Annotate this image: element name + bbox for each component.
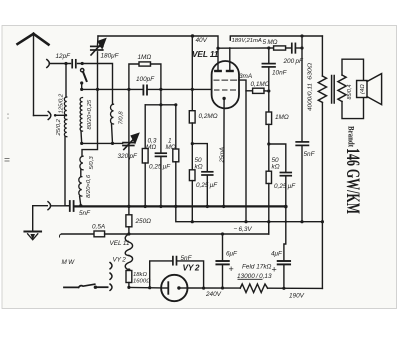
wire tap to coil L1 [55,114,66,116]
coil L1 125/0.2 + 25/0.2 [64,97,66,137]
svg-text:8/20×0,6: 8/20×0,6 [86,174,92,198]
svg-text:25/0,2: 25/0,2 [56,118,62,136]
wire line y=143.4 [82,142,123,144]
svg-text:5nF: 5nF [181,255,193,262]
svg-text:VY 2: VY 2 [113,256,127,263]
svg-text:M W: M W [62,259,76,266]
svg-text:5 MΩ: 5 MΩ [263,39,278,46]
node L3 bottom [111,142,114,145]
svg-text:40V: 40V [196,37,208,44]
capacitor 0.25uF detector [156,153,167,156]
svg-text:0,25 μF: 0,25 μF [274,183,296,190]
ground [25,206,48,240]
svg-text:146 GW/KM: 146 GW/KM [342,148,363,214]
svg-text:630Ω: 630Ω [307,62,313,80]
heater VY2 wavy [125,256,132,271]
speaker voice coil box [357,81,367,98]
svg-text:VEL 11: VEL 11 [110,240,130,247]
svg-text:4μF: 4μF [271,250,283,257]
svg-text:0,25 μF: 0,25 μF [149,164,171,171]
speaker cone [367,74,382,105]
svg-text:200 pF: 200 pF [283,58,304,65]
svg-text:80/20×0,25: 80/20×0,25 [87,99,93,129]
resistor 0.1M [246,90,253,92]
svg-text:kΩ: kΩ [195,164,203,171]
connector plug antenna tap [48,112,51,120]
svg-text:12pF: 12pF [56,53,72,60]
svg-text:85/0,4: 85/0,4 [347,84,353,100]
svg-text:0,5A: 0,5A [92,223,105,230]
resistor 250 ohm [128,206,130,214]
svg-text:240V: 240V [205,291,222,298]
resistor 1M grid bracket [129,62,161,90]
coil L2 80/20x0.25 [80,98,82,132]
wire x=302 branch 5nF [301,36,303,141]
wire cathode rail to VY2 [129,286,161,289]
svg-text:6μF: 6μF [226,250,238,257]
transformer primary winding [318,76,326,102]
wire -6.3V line [176,206,323,221]
svg-text:VEL 11: VEL 11 [192,49,219,59]
capacitor 0.25uF mid [202,172,213,175]
capacitor 4uF electrolytic [284,207,286,261]
transformer secondary winding [338,75,346,102]
svg-text:0,1MΩ: 0,1MΩ [251,81,270,88]
resistor 18k/1600 [126,271,132,283]
transformer core [331,76,333,104]
wire input line y=63.5 [49,63,70,65]
anode plates [215,70,220,72]
svg-text:Feld 17kΩ: Feld 17kΩ [242,263,272,270]
svg-text:190V: 190V [289,292,305,299]
speck marks left margin [5,114,10,162]
capacitor 100pF [143,85,147,94]
wire heater rail [62,233,95,235]
svg-text:5nF: 5nF [304,151,316,158]
svg-text:7/0,8: 7/0,8 [119,111,125,125]
switch band MW [80,69,87,90]
svg-text:18kΩ: 18kΩ [133,272,147,278]
svg-text:kΩ: kΩ [272,164,280,171]
wire 0.25uF branch right [269,144,286,172]
antenna [18,34,49,116]
svg-text:100pF: 100pF [136,76,155,83]
capacitor 5nF right [296,142,308,146]
wire 240V rail [187,287,240,289]
capacitor 5nF chassis [70,201,74,211]
wire L2 bottom to 143 line [80,131,83,143]
wire antenna to tap plug [34,115,48,117]
wire screen g2 right + 3mA [239,80,246,222]
wire output transformer primary feed x=322.4 [321,36,323,76]
svg-text:10nF: 10nF [272,70,288,77]
variable capacitor 180pF [91,46,103,50]
grid g2 dashes [214,79,237,81]
wire cap to switch and corner to L3 [78,64,113,105]
svg-text:MΩ: MΩ [166,144,176,151]
svg-text:MΩ: MΩ [146,144,156,151]
capacitor 200pF [292,43,296,52]
coil L4 5/0.3 [80,156,83,170]
capacitor 6uF electrolytic [222,234,224,261]
variable capacitor 320pF [123,143,134,146]
switch mains [64,286,79,288]
node grid wire left end [80,88,83,91]
svg-text:4000/0,11: 4000/0,11 [307,83,313,111]
wire y=104.8 link [145,104,176,106]
node L1 top [64,62,67,65]
svg-text:3mA: 3mA [239,73,252,80]
wire anode line y=48 [218,47,269,49]
svg-text:Brandt: Brandt [346,126,355,147]
wire 320pF branch x=128.9 [128,89,130,142]
svg-text:(4Ω: (4Ω [360,84,366,94]
svg-text:0,25 μF: 0,25 μF [196,182,218,189]
heater taps plugs [110,263,112,269]
cathode [222,97,225,100]
capacitor 12pF [72,60,76,68]
tube VEL11 [212,48,239,207]
wire screen feed x=192 [191,36,193,111]
capacitor 0.25uF right [280,173,291,176]
rectifier VY2 [161,275,187,301]
wire 0.25uF branch mid [192,144,207,172]
capacitor 5nF VY2 bridge [150,261,172,288]
svg-text:180μF: 180μF [101,53,120,60]
heater VEL11 wavy [125,234,132,256]
wire chassis bus [75,205,286,207]
wire 180pF branch x=97.5 [97,36,100,45]
svg-text:1MΩ: 1MΩ [275,114,289,121]
speaker loop [342,59,364,80]
svg-text:0,2MΩ: 0,2MΩ [199,113,218,120]
svg-text:VY 2: VY 2 [183,262,200,272]
svg-text:5/0,3: 5/0,3 [89,156,95,170]
svg-text:320 pF: 320 pF [118,153,138,160]
resistor 0.3M [144,105,146,149]
capacitor 10nF [262,64,275,67]
svg-text:125/0,2: 125/0,2 [59,93,65,113]
svg-text:− 6,3V: − 6,3V [234,226,253,233]
connector plug aerial input [47,60,50,68]
wire L1 bottom to chassis [65,137,69,206]
resistor 50k right [266,171,271,183]
resistor 50k left [191,144,193,170]
connector plug chassis [48,202,51,210]
resistor 1M left [175,105,177,149]
svg-text:5nF: 5nF [79,210,91,217]
wire x=268.8 long branch [268,48,270,63]
fuse 0.5A [94,231,105,237]
node anode supply [216,47,219,50]
svg-text:1MΩ: 1MΩ [138,54,152,61]
svg-text:250Ω: 250Ω [135,218,152,225]
svg-text:+: + [229,264,234,274]
field coil Feld 17k zigzag [240,284,267,293]
svg-text:13000 / 0,13: 13000 / 0,13 [237,273,272,280]
resistor 5M [269,47,274,49]
coil L3 7/0.8 [110,104,113,124]
node switch top [81,62,84,65]
wire L1 top feed [65,64,67,98]
resistor 1M right [266,112,272,124]
svg-text:+: + [272,265,277,275]
wire x=160.7 branch [160,89,162,152]
wire top bus 40V [98,36,218,48]
svg-text:25mA: 25mA [220,147,226,163]
coil L5 8/20x0.6 [80,170,82,177]
svg-text:189V,21mA: 189V,21mA [232,38,262,44]
grid g1 dashes [215,89,236,91]
wire grid line y=89.4 [82,88,143,90]
svg-text:1600Ω: 1600Ω [133,278,151,284]
resistor 0.2M [189,111,195,123]
